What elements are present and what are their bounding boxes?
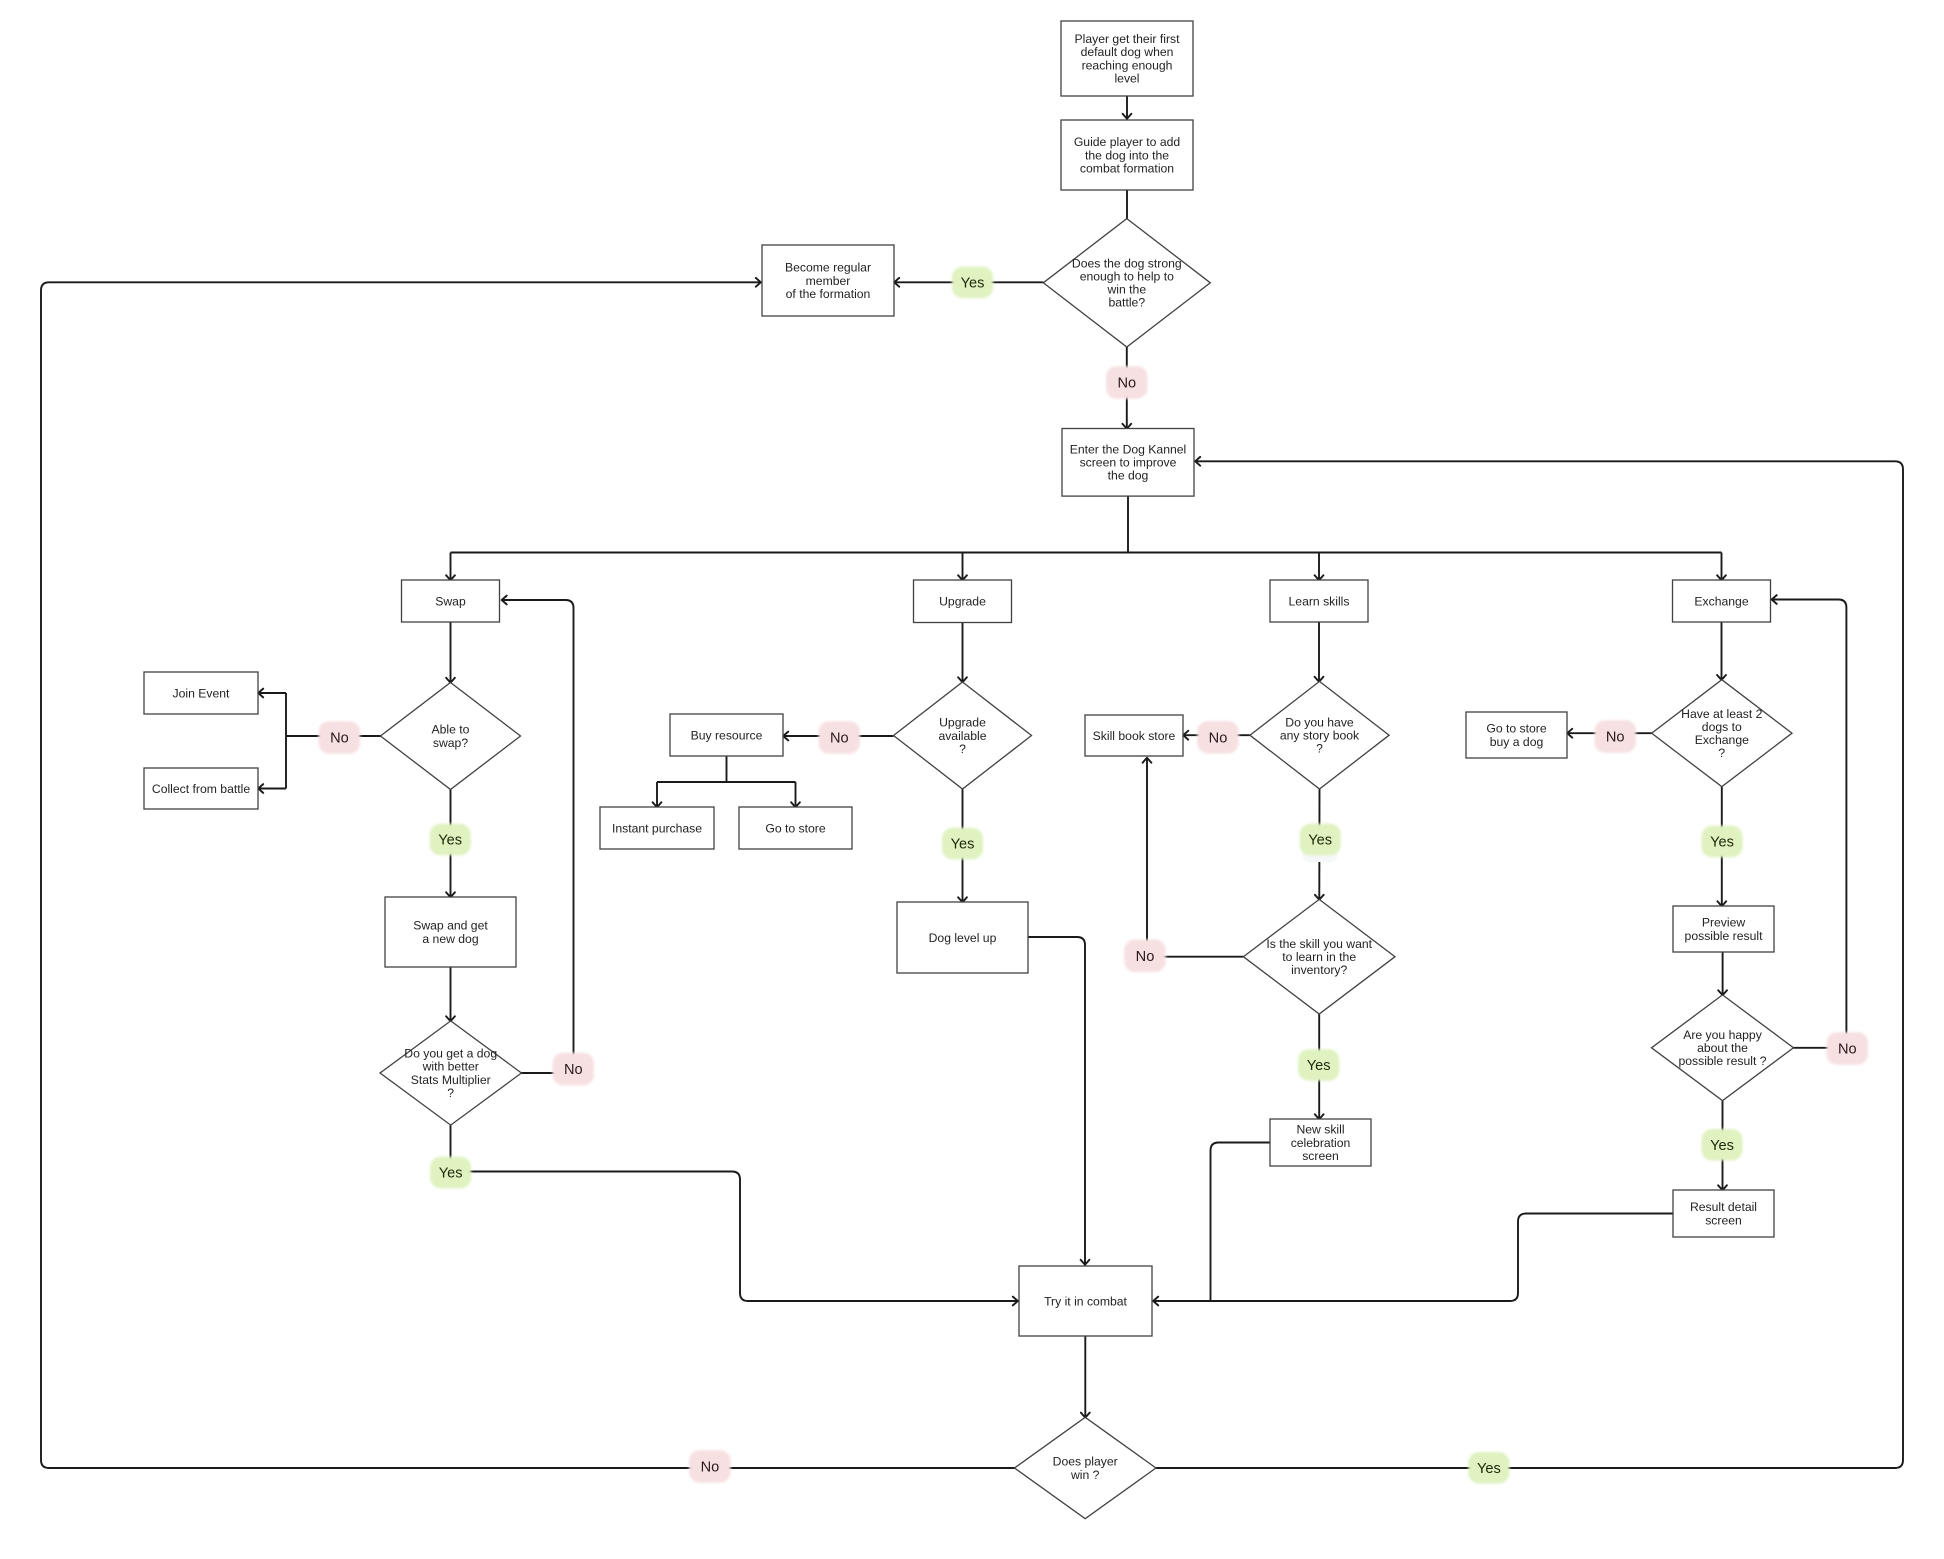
svg-text:Able toswap?: Able toswap? xyxy=(432,723,470,750)
edge label Y9 Yes xyxy=(1468,1452,1509,1484)
svg-text:Yes: Yes xyxy=(1710,1138,1734,1154)
svg-text:Collect from battle: Collect from battle xyxy=(152,782,250,796)
wire B11 stem xyxy=(726,756,728,782)
edge label N1 No xyxy=(1106,366,1148,399)
svg-text:Go to store: Go to store xyxy=(765,821,826,835)
process box B16 Skill book store xyxy=(1085,715,1183,756)
wire D2 no elbow xyxy=(286,735,381,737)
edge label N9 No xyxy=(689,1450,731,1483)
svg-text:No: No xyxy=(564,1062,583,1078)
svg-text:Skill book store: Skill book store xyxy=(1093,729,1176,743)
process box B11 Buy resource xyxy=(670,714,783,756)
process box B18 Preview possible result xyxy=(1673,906,1774,952)
decision diamond D1 dog strong enough xyxy=(1043,219,1210,347)
wire D1 no to B4 xyxy=(1126,347,1128,428)
edge label N4 No xyxy=(1197,721,1239,754)
svg-text:Join Event: Join Event xyxy=(173,686,231,700)
svg-text:No: No xyxy=(1136,949,1155,965)
edge label Y7 Yes xyxy=(1298,1049,1339,1081)
wire D8 yes to B20 xyxy=(1722,1101,1724,1189)
wire trunk to Exchange xyxy=(1721,553,1723,580)
svg-text:Try it in combat: Try it in combat xyxy=(1044,1294,1127,1308)
decision diamond D2 able to swap xyxy=(381,683,521,790)
svg-text:Yes: Yes xyxy=(438,833,462,849)
svg-text:Yes: Yes xyxy=(1477,1461,1501,1477)
svg-text:Yes: Yes xyxy=(961,275,985,291)
wire D5 no to B17 xyxy=(1569,732,1652,734)
process box B21 Try it in combat xyxy=(1019,1266,1152,1336)
process box B10 Collect from battle xyxy=(144,768,258,809)
svg-text:Guide player to addthe dog int: Guide player to addthe dog into thecomba… xyxy=(1074,135,1180,175)
process box B9 Join Event xyxy=(144,672,258,714)
process box B14 Swap and get a new dog xyxy=(385,897,516,967)
svg-text:Learn skills: Learn skills xyxy=(1289,594,1350,608)
svg-text:Exchange: Exchange xyxy=(1694,594,1748,608)
decision diamond D7 skill in inventory xyxy=(1243,899,1395,1014)
process box B13 Go to store xyxy=(739,807,852,849)
svg-text:Yes: Yes xyxy=(1307,1058,1331,1074)
process box B19 New skill celebration screen xyxy=(1270,1119,1371,1166)
wire to B12 xyxy=(656,782,658,806)
decision diamond D5 at least 2 dogs xyxy=(1652,680,1792,787)
wire B20 to B21 xyxy=(1155,1214,1674,1302)
wire B18 to D8 xyxy=(1722,952,1724,994)
process box B17 Go to store buy a dog xyxy=(1466,712,1567,758)
svg-text:Yes: Yes xyxy=(1710,835,1734,851)
wire D3 no to B11 xyxy=(785,735,894,737)
decision diamond D8 happy about result xyxy=(1652,995,1794,1101)
process box B3 become regular member xyxy=(762,245,894,316)
wire D1 yes to B3 xyxy=(896,281,1044,283)
wire no elbow vertical xyxy=(285,693,287,789)
svg-text:Swap and geta new dog: Swap and geta new dog xyxy=(413,919,488,946)
svg-text:Buy resource: Buy resource xyxy=(691,728,763,742)
wire buy split xyxy=(657,781,796,783)
process box B1 player gets first dog xyxy=(1061,21,1193,96)
process box B6 Upgrade xyxy=(914,580,1012,623)
edge label N5 No xyxy=(1595,720,1637,753)
wire D2 yes to B14 xyxy=(450,790,452,897)
wire B1 to B2 xyxy=(1126,96,1128,118)
svg-text:Dog level up: Dog level up xyxy=(929,931,997,945)
svg-text:Upgrade: Upgrade xyxy=(939,595,986,609)
wire D8 no to B8 xyxy=(1773,600,1846,1048)
edge label Y8 Yes xyxy=(1702,1129,1743,1161)
wire kennel trunk xyxy=(451,552,1722,554)
wire trunk to Upgrade xyxy=(962,553,964,580)
wire D9 no loop to B3 xyxy=(41,282,1015,1468)
wire D7 yes to B19 xyxy=(1318,1014,1320,1118)
svg-text:Instant purchase: Instant purchase xyxy=(612,821,702,835)
svg-text:No: No xyxy=(1606,730,1625,746)
edge label N6 No xyxy=(553,1053,595,1086)
edge label N8 No xyxy=(1827,1032,1869,1065)
process box B4 enter Dog Kannel screen xyxy=(1062,429,1194,497)
svg-text:Yes: Yes xyxy=(951,837,975,853)
wire B6 to D3 xyxy=(962,623,964,682)
process box B5 Swap xyxy=(402,580,500,622)
process box B7 Learn skills xyxy=(1270,580,1368,622)
wire D6 yes to B21 xyxy=(451,1125,1017,1301)
svg-text:Yes: Yes xyxy=(439,1166,463,1182)
wire no to B10 xyxy=(260,788,287,790)
edge label N7 No xyxy=(1124,940,1166,973)
process box B8 Exchange xyxy=(1673,580,1771,622)
edge label Y1 Yes xyxy=(952,267,993,299)
decision diamond D3 upgrade available xyxy=(894,682,1032,789)
wire D3 yes to B15 xyxy=(962,789,964,901)
wire trunk to Swap xyxy=(450,553,452,580)
svg-text:No: No xyxy=(1838,1042,1857,1058)
wire D9 yes loop to B4 xyxy=(1156,461,1903,1468)
wire D6 no to B5 xyxy=(503,600,574,1073)
wire D7 no to B16 xyxy=(1147,759,1243,957)
edge label N3 No xyxy=(819,721,861,754)
svg-text:Swap: Swap xyxy=(435,594,466,608)
wire B21 to D9 xyxy=(1084,1336,1086,1416)
wire no to B9 xyxy=(260,692,287,694)
edge label N2 No xyxy=(319,721,361,754)
wire B19 to combat xyxy=(1211,1143,1271,1302)
wire B8 to D5 xyxy=(1721,622,1723,679)
wire D4 no to B16 xyxy=(1185,734,1250,736)
process box B20 Result detail screen xyxy=(1673,1190,1774,1237)
wire B5 to D2 xyxy=(450,622,452,682)
edge label Y6 Yes xyxy=(430,1157,471,1189)
process box B2 guide player add dog xyxy=(1061,120,1193,190)
decision diamond D6 better stats multiplier xyxy=(380,1021,521,1125)
edge label Y5 Yes xyxy=(1702,826,1743,858)
wire trunk to Learn skills xyxy=(1318,553,1320,580)
wire D5 yes to B18 xyxy=(1721,787,1723,905)
svg-text:Go to storebuy a dog: Go to storebuy a dog xyxy=(1486,722,1547,749)
wire B14 to D6 xyxy=(450,967,452,1020)
wire B2 to D1 xyxy=(1126,190,1128,220)
wire B15 to B21 xyxy=(1028,937,1085,1264)
decision diamond D9 does player win xyxy=(1015,1417,1156,1518)
wire B4 stem xyxy=(1127,496,1129,553)
decision diamond D4 any story book xyxy=(1250,681,1389,789)
svg-text:No: No xyxy=(1209,730,1228,746)
wire D4 yes to D7 xyxy=(1318,789,1320,899)
edge label Y4 Yes xyxy=(1300,824,1341,856)
process box B12 Instant purchase xyxy=(600,807,714,849)
ghost empty label under Y4 xyxy=(1303,846,1338,863)
svg-text:No: No xyxy=(1117,376,1136,392)
process box B15 Dog level up xyxy=(897,902,1028,973)
wire B7 to D4 xyxy=(1318,622,1320,680)
wire to B13 xyxy=(795,782,797,806)
svg-text:No: No xyxy=(830,731,849,747)
edge label Y2 Yes xyxy=(430,824,471,856)
svg-text:No: No xyxy=(330,731,349,747)
svg-text:Yes: Yes xyxy=(1308,833,1332,849)
svg-text:No: No xyxy=(701,1460,720,1476)
edge label Y3 Yes xyxy=(942,828,983,860)
